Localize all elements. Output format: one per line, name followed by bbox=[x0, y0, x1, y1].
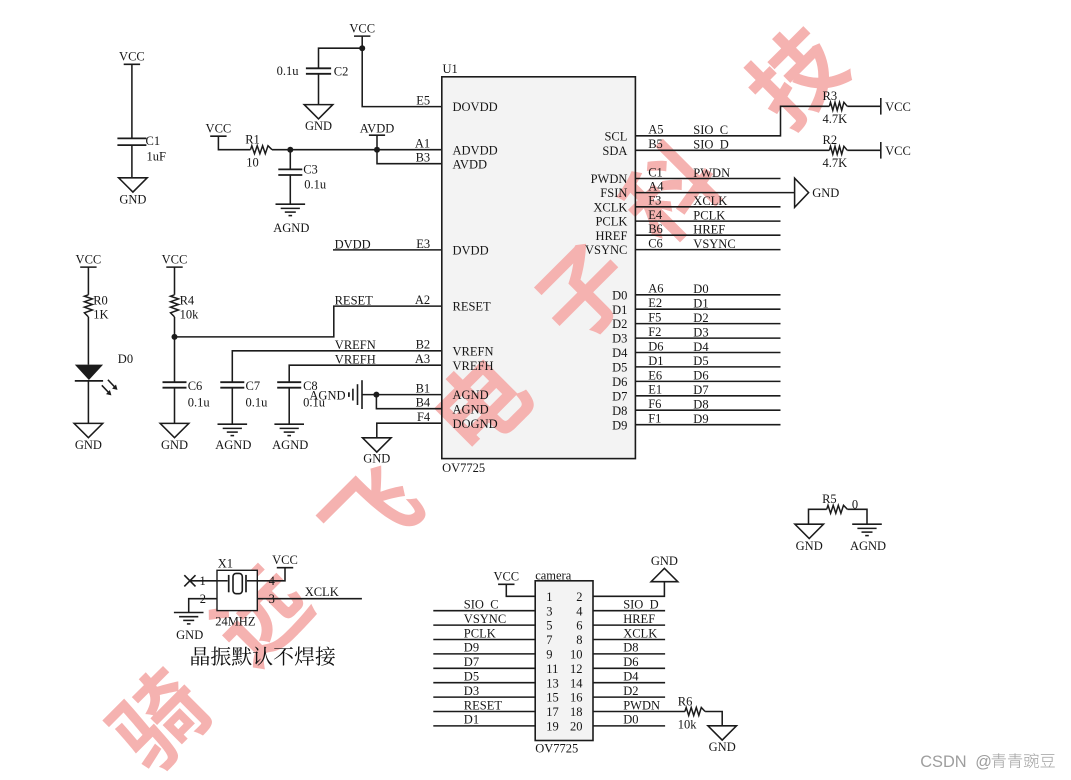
svg-text:A4: A4 bbox=[648, 180, 664, 194]
net label D0 bbox=[693, 282, 708, 296]
svg-text:C2: C2 bbox=[334, 65, 349, 79]
wire D3 net bbox=[635, 337, 780, 339]
svg-text:XCLK: XCLK bbox=[623, 626, 657, 640]
svg-text:D3: D3 bbox=[464, 684, 479, 698]
svg-text:RESET: RESET bbox=[464, 698, 503, 712]
svg-text:D6: D6 bbox=[612, 375, 627, 389]
wire bbox=[218, 136, 250, 150]
svg-text:D1: D1 bbox=[612, 303, 627, 317]
wire bbox=[289, 150, 291, 170]
svg-text:D4: D4 bbox=[612, 346, 628, 360]
U1 pin A2 (RESET) bbox=[415, 293, 491, 314]
svg-text:1uF: 1uF bbox=[147, 150, 167, 164]
net label VREFN bbox=[335, 338, 376, 352]
wire D1 net bbox=[635, 308, 780, 310]
svg-text:B4: B4 bbox=[416, 396, 431, 410]
svg-text:DVDD: DVDD bbox=[453, 244, 489, 258]
net label HREF bbox=[693, 223, 725, 237]
wire bbox=[87, 381, 89, 424]
wire FSIN net (A4) bbox=[635, 192, 794, 194]
U1 pin F5 (D2) bbox=[612, 311, 661, 332]
svg-text:D0: D0 bbox=[693, 282, 708, 296]
resistor R2 bbox=[823, 133, 848, 170]
svg-text:U1: U1 bbox=[443, 62, 458, 76]
svg-text:E2: E2 bbox=[648, 296, 662, 310]
svg-text:D5: D5 bbox=[693, 354, 708, 368]
wire HREF net (B6) bbox=[635, 234, 780, 236]
wire VREFH net bbox=[289, 365, 442, 382]
net label SIO_D bbox=[623, 598, 658, 612]
svg-text:VCC: VCC bbox=[349, 22, 375, 36]
svg-text:E6: E6 bbox=[648, 368, 662, 382]
U1 pin F2 (D3) bbox=[612, 325, 661, 346]
U1 pin E2 (D1) bbox=[612, 296, 662, 317]
junction bbox=[287, 147, 293, 153]
svg-text:F1: F1 bbox=[648, 412, 661, 426]
svg-text:A5: A5 bbox=[648, 123, 663, 137]
ground GND (C2) bbox=[304, 105, 333, 134]
net label XCLK bbox=[693, 194, 727, 208]
U1 pin F3 (XCLK) bbox=[593, 194, 661, 215]
wire bbox=[319, 48, 363, 68]
net label XCLK bbox=[305, 585, 339, 599]
svg-text:D8: D8 bbox=[693, 398, 708, 412]
U1 pin A6 (D0) bbox=[612, 282, 663, 303]
wire VREFN net bbox=[232, 351, 441, 382]
junction bbox=[374, 147, 380, 153]
svg-text:24MHZ: 24MHZ bbox=[215, 615, 255, 629]
power VCC (LED branch) bbox=[76, 253, 102, 268]
svg-text:C7: C7 bbox=[246, 379, 261, 393]
svg-text:XCLK: XCLK bbox=[305, 585, 339, 599]
svg-text:D0: D0 bbox=[612, 288, 627, 302]
svg-text:4.7K: 4.7K bbox=[823, 156, 848, 170]
ground AGND (C8) bbox=[272, 424, 308, 452]
wire bbox=[131, 64, 133, 138]
svg-text:D6: D6 bbox=[693, 369, 708, 383]
svg-text:AGND: AGND bbox=[272, 438, 308, 452]
annotation 晶振默认不焊接 bbox=[191, 646, 335, 665]
wire D1 net (J1 pin 19) bbox=[433, 725, 535, 727]
svg-text:VSYNC: VSYNC bbox=[585, 243, 627, 257]
wire D8 net bbox=[635, 409, 780, 411]
resistor R1 bbox=[245, 132, 272, 169]
net label VREFH bbox=[335, 353, 376, 367]
J1 pin 20 bbox=[570, 720, 583, 734]
wire bbox=[257, 568, 285, 581]
net label D6 bbox=[693, 369, 708, 383]
svg-text:VCC: VCC bbox=[885, 144, 911, 158]
svg-text:12: 12 bbox=[570, 662, 583, 676]
svg-text:F4: F4 bbox=[417, 410, 431, 424]
net label D1 bbox=[464, 713, 479, 727]
svg-text:1K: 1K bbox=[93, 307, 108, 321]
svg-text:VCC: VCC bbox=[76, 253, 102, 267]
svg-text:B3: B3 bbox=[416, 151, 431, 165]
svg-text:1: 1 bbox=[199, 574, 205, 588]
wire PCLK net (E4) bbox=[635, 220, 780, 222]
svg-text:D1: D1 bbox=[648, 354, 663, 368]
svg-text:D4: D4 bbox=[623, 670, 639, 684]
net label VSYNC bbox=[693, 237, 735, 251]
wire F4 net bbox=[377, 423, 442, 438]
svg-text:B1: B1 bbox=[416, 382, 431, 396]
svg-text:D6: D6 bbox=[623, 655, 638, 669]
net label PCLK bbox=[464, 626, 496, 640]
J1 pin 12 bbox=[570, 662, 583, 676]
resistor R4 bbox=[171, 293, 200, 321]
net label D8 bbox=[693, 398, 708, 412]
U1 pin E1 (D7) bbox=[612, 383, 662, 404]
svg-text:13: 13 bbox=[546, 676, 559, 690]
net label D3 bbox=[464, 684, 479, 698]
svg-text:18: 18 bbox=[570, 705, 583, 719]
svg-text:VCC: VCC bbox=[206, 122, 232, 136]
svg-text:R1: R1 bbox=[245, 132, 260, 146]
svg-text:GND: GND bbox=[305, 119, 332, 133]
svg-text:D3: D3 bbox=[693, 325, 708, 339]
capacitor C8 bbox=[277, 379, 326, 410]
power VCC (R1 branch) bbox=[206, 122, 232, 137]
wire D4 net bbox=[635, 352, 780, 354]
wire XCLK net (F3) bbox=[635, 206, 780, 208]
svg-text:19: 19 bbox=[546, 720, 559, 734]
J1 pin 11 bbox=[546, 662, 558, 676]
U1 pin F1 (D9) bbox=[612, 412, 661, 433]
U1 pin B4 (AGND) bbox=[416, 396, 489, 417]
power VCC (R2) bbox=[881, 142, 911, 159]
U1 pin A5 (SCL) bbox=[604, 123, 663, 144]
ground GND (A4/FSIN, right-pointing) bbox=[795, 178, 840, 207]
J1 pin 2 bbox=[576, 590, 582, 604]
watermark text 骑远飞电子科技 (decorative) bbox=[98, 14, 857, 780]
svg-text:0.1u: 0.1u bbox=[188, 396, 211, 410]
U1 pin C6 (VSYNC) bbox=[585, 237, 663, 258]
svg-text:C6: C6 bbox=[188, 379, 203, 393]
wire bbox=[87, 317, 89, 365]
U1 pin F4 (DOGND) bbox=[417, 410, 498, 431]
svg-text:D4: D4 bbox=[693, 340, 709, 354]
wire bbox=[847, 509, 867, 524]
svg-text:AGND: AGND bbox=[453, 402, 489, 416]
svg-text:R0: R0 bbox=[93, 293, 108, 307]
svg-text:D0: D0 bbox=[623, 713, 638, 727]
wire D7 net bbox=[635, 395, 780, 397]
net label D2 bbox=[693, 311, 708, 325]
U1 pin B5 (SDA) bbox=[602, 137, 662, 158]
J1 pin 9 bbox=[546, 648, 552, 662]
svg-text:B6: B6 bbox=[648, 222, 663, 236]
svg-text:11: 11 bbox=[546, 662, 558, 676]
svg-text:VSYNC: VSYNC bbox=[693, 237, 735, 251]
wire D6 net bbox=[635, 380, 780, 382]
svg-text:D1: D1 bbox=[693, 297, 708, 311]
net label D8 bbox=[623, 641, 638, 655]
wire D8 net (J1 pin 10) bbox=[593, 653, 665, 655]
svg-text:GND: GND bbox=[75, 438, 102, 452]
J1 pin 4 bbox=[576, 604, 583, 618]
svg-text:15: 15 bbox=[546, 691, 559, 705]
wire bbox=[131, 145, 133, 178]
svg-text:PCLK: PCLK bbox=[595, 215, 627, 229]
svg-text:ADVDD: ADVDD bbox=[453, 143, 498, 157]
net label SIO_D bbox=[693, 138, 728, 152]
svg-text:camera: camera bbox=[535, 569, 572, 583]
svg-text:PWDN: PWDN bbox=[693, 166, 730, 180]
wire SIO_D net (J1 pin 4) bbox=[593, 610, 665, 612]
svg-text:VREFH: VREFH bbox=[453, 359, 494, 373]
U1 pin A3 (VREFH) bbox=[415, 352, 494, 373]
svg-text:D8: D8 bbox=[612, 404, 627, 418]
connector J1 outline (camera) bbox=[535, 569, 593, 756]
ground AGND (C7) bbox=[215, 424, 251, 452]
svg-text:VREFN: VREFN bbox=[453, 344, 494, 358]
svg-text:@: @ bbox=[975, 753, 992, 771]
power VCC (X1 pin4) bbox=[272, 553, 298, 568]
svg-text:PCLK: PCLK bbox=[693, 208, 725, 222]
J1 pin 14 bbox=[570, 676, 583, 690]
net label XCLK bbox=[623, 626, 657, 640]
svg-text:10: 10 bbox=[570, 648, 583, 662]
capacitor C3 bbox=[278, 162, 327, 191]
power AGND (port, B1/B4 nets) bbox=[309, 380, 362, 409]
svg-text:GND: GND bbox=[796, 539, 823, 553]
wire E5 net bbox=[362, 36, 442, 107]
svg-text:R2: R2 bbox=[823, 133, 838, 147]
svg-text:2: 2 bbox=[576, 590, 582, 604]
svg-text:XCLK: XCLK bbox=[693, 194, 727, 208]
svg-text:D1: D1 bbox=[464, 713, 479, 727]
svg-text:A3: A3 bbox=[415, 352, 430, 366]
svg-text:0.1u: 0.1u bbox=[277, 64, 300, 78]
U1 pin F6 (D8) bbox=[612, 397, 661, 418]
svg-text:10k: 10k bbox=[678, 717, 698, 731]
junction bbox=[359, 45, 365, 51]
svg-text:E3: E3 bbox=[416, 237, 430, 251]
wire D5 net (J1 pin 13) bbox=[433, 682, 535, 684]
svg-text:DOGND: DOGND bbox=[453, 417, 498, 431]
wire XCLK net (J1 pin 8) bbox=[593, 639, 665, 641]
wire bbox=[190, 580, 217, 582]
svg-text:VSYNC: VSYNC bbox=[464, 612, 506, 626]
svg-text:RESET: RESET bbox=[453, 300, 492, 314]
svg-text:C6: C6 bbox=[648, 237, 663, 251]
wire PWDN net (C1) bbox=[635, 178, 780, 180]
wire bbox=[318, 74, 320, 105]
wire SIO_D net (B5) bbox=[635, 149, 829, 151]
resistor R6 bbox=[678, 694, 705, 731]
svg-text:GND: GND bbox=[119, 192, 146, 206]
svg-text:GND: GND bbox=[812, 186, 839, 200]
net label PWDN bbox=[693, 166, 730, 180]
net label D2 bbox=[623, 684, 638, 698]
ground GND (X1 pin2) bbox=[174, 613, 204, 642]
svg-text:R6: R6 bbox=[678, 694, 693, 708]
U1 pin E6 (D6) bbox=[612, 368, 662, 389]
svg-text:C1: C1 bbox=[648, 165, 663, 179]
net label D9 bbox=[464, 641, 479, 655]
wire PWDN net (J1 pin 18) bbox=[593, 711, 685, 713]
svg-text:AGND: AGND bbox=[215, 438, 251, 452]
svg-text:E5: E5 bbox=[416, 94, 430, 108]
svg-text:AVDD: AVDD bbox=[360, 122, 395, 136]
svg-text:AGND: AGND bbox=[453, 388, 489, 402]
wire SIO_C net (A5) bbox=[635, 106, 829, 136]
svg-text:16: 16 bbox=[570, 691, 583, 705]
J1 pin 13 bbox=[546, 676, 559, 690]
net label PWDN bbox=[623, 698, 660, 712]
J1 pin 5 bbox=[546, 619, 552, 633]
U1 pin A1 (ADVDD) bbox=[415, 137, 498, 158]
svg-text:10: 10 bbox=[246, 155, 259, 169]
svg-text:SIO C: SIO C bbox=[693, 123, 728, 137]
wire bbox=[174, 317, 176, 382]
svg-text:AVDD: AVDD bbox=[453, 157, 488, 171]
svg-text:FSIN: FSIN bbox=[600, 186, 627, 200]
wire bbox=[231, 388, 233, 424]
resistor R3 bbox=[823, 89, 848, 126]
net label VSYNC bbox=[464, 612, 506, 626]
wire D9 net (J1 pin 9) bbox=[433, 653, 535, 655]
resistor R0 bbox=[84, 293, 108, 321]
svg-text:DOVDD: DOVDD bbox=[453, 100, 498, 114]
wire D5 net bbox=[635, 366, 780, 368]
wire B3 net bbox=[377, 150, 442, 164]
net label D4 bbox=[693, 340, 709, 354]
svg-text:OV7725: OV7725 bbox=[535, 741, 578, 755]
net label RESET bbox=[335, 293, 374, 307]
svg-text:D5: D5 bbox=[464, 670, 479, 684]
svg-text:AGND: AGND bbox=[273, 221, 309, 235]
svg-text:GND: GND bbox=[709, 740, 736, 754]
ground GND (C6) bbox=[160, 423, 189, 452]
svg-text:D7: D7 bbox=[464, 655, 479, 669]
ground AGND (R5 right) bbox=[850, 524, 886, 553]
svg-text:HREF: HREF bbox=[595, 229, 627, 243]
wire D6 net (J1 pin 12) bbox=[593, 667, 665, 669]
power VCC (R4 branch) bbox=[162, 253, 188, 268]
svg-text:0.1u: 0.1u bbox=[304, 177, 327, 191]
U1 pin C1 (PWDN) bbox=[591, 165, 663, 186]
LED D0 bbox=[75, 352, 133, 396]
net label D4 bbox=[623, 670, 639, 684]
svg-text:VREFH: VREFH bbox=[335, 353, 376, 367]
svg-text:D0: D0 bbox=[118, 352, 133, 366]
ground GND (J1 pin2, up-pointing) bbox=[651, 554, 678, 582]
svg-text:D8: D8 bbox=[623, 641, 638, 655]
svg-text:C1: C1 bbox=[146, 134, 161, 148]
svg-text:D5: D5 bbox=[612, 361, 627, 375]
power VCC (C2/E5 branch) bbox=[349, 22, 375, 37]
svg-text:D9: D9 bbox=[612, 418, 627, 432]
capacitor C1 bbox=[117, 134, 166, 164]
svg-text:5: 5 bbox=[546, 619, 552, 633]
svg-text:9: 9 bbox=[546, 648, 552, 662]
svg-text:GND: GND bbox=[363, 451, 390, 465]
net label D3 bbox=[693, 325, 708, 339]
wire D9 net bbox=[635, 424, 780, 426]
svg-text:PCLK: PCLK bbox=[464, 626, 496, 640]
svg-text:HREF: HREF bbox=[693, 223, 725, 237]
svg-text:D3: D3 bbox=[612, 332, 627, 346]
junction bbox=[172, 334, 178, 340]
capacitor C7 bbox=[220, 379, 268, 410]
svg-text:VCC: VCC bbox=[162, 253, 188, 267]
resistor R5 bbox=[822, 492, 858, 513]
wire VSYNC net (J1 pin 5) bbox=[433, 624, 535, 626]
caption CSDN @青青豌豆 bbox=[920, 753, 1055, 771]
J1 pin 15 bbox=[546, 691, 559, 705]
net label SIO_C bbox=[464, 598, 499, 612]
wire bbox=[289, 175, 291, 204]
capacitor C6 bbox=[163, 379, 211, 410]
svg-text:D9: D9 bbox=[464, 641, 479, 655]
net label D7 bbox=[693, 383, 708, 397]
J1 pin 18 bbox=[570, 705, 583, 719]
net label HREF bbox=[623, 612, 655, 626]
wire D0 net bbox=[635, 294, 780, 296]
IC U1 body fill bbox=[442, 77, 636, 459]
wire D3 net (J1 pin 15) bbox=[433, 696, 535, 698]
wire bbox=[174, 267, 176, 295]
svg-text:3: 3 bbox=[546, 604, 552, 618]
power AVDD bbox=[360, 122, 395, 150]
wire B1 net bbox=[362, 394, 442, 396]
svg-text:D2: D2 bbox=[612, 317, 627, 331]
wire D0 net (J1 pin 20) bbox=[593, 725, 665, 727]
J1 pin 6 bbox=[576, 619, 582, 633]
wire RESET net bbox=[175, 306, 442, 337]
net label RESET bbox=[464, 698, 503, 712]
svg-text:B2: B2 bbox=[416, 338, 431, 352]
J1 pin 3 bbox=[546, 604, 552, 618]
power VCC (J1 pin1) bbox=[493, 570, 519, 585]
svg-text:A6: A6 bbox=[648, 282, 663, 296]
svg-text:X1: X1 bbox=[218, 557, 233, 571]
svg-text:PWDN: PWDN bbox=[591, 172, 628, 186]
J1 pin 16 bbox=[570, 691, 583, 705]
svg-text:SIO C: SIO C bbox=[464, 598, 499, 612]
wire VSYNC net (C6) bbox=[635, 249, 780, 251]
J1 pin 17 bbox=[546, 705, 559, 719]
svg-text:OV7725: OV7725 bbox=[442, 461, 485, 475]
net label D5 bbox=[464, 670, 479, 684]
svg-text:7: 7 bbox=[546, 633, 552, 647]
wire bbox=[174, 388, 176, 424]
svg-text:VCC: VCC bbox=[272, 553, 298, 567]
crystal X1 (24MHZ) bbox=[199, 557, 275, 629]
net label D6 bbox=[623, 655, 638, 669]
svg-text:D7: D7 bbox=[612, 389, 627, 403]
svg-text:D2: D2 bbox=[693, 311, 708, 325]
wire bbox=[847, 105, 881, 107]
wire SIO_C net (J1 pin 3) bbox=[433, 610, 535, 612]
ground GND (R5 left) bbox=[795, 524, 824, 553]
svg-text:20: 20 bbox=[570, 720, 583, 734]
U1 pin A4 (FSIN) bbox=[600, 180, 664, 201]
ground GND (F4/DOGND) bbox=[363, 438, 392, 466]
U1 pin B2 (VREFN) bbox=[416, 338, 494, 359]
J1 pin 1 bbox=[546, 590, 552, 604]
U1 pin D6 (D4) bbox=[612, 339, 663, 360]
wire HREF net (J1 pin 6) bbox=[593, 624, 665, 626]
ground GND (R6) bbox=[708, 726, 737, 754]
svg-text:D9: D9 bbox=[693, 412, 708, 426]
svg-text:F2: F2 bbox=[648, 325, 661, 339]
svg-text:10k: 10k bbox=[180, 307, 200, 321]
svg-text:AGND: AGND bbox=[850, 539, 886, 553]
svg-text:R5: R5 bbox=[822, 492, 837, 506]
